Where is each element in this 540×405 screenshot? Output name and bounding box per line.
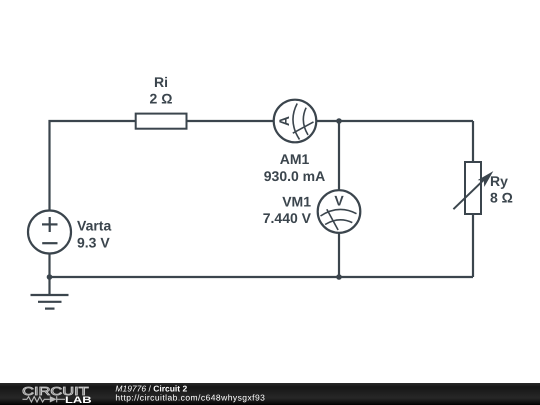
voltmeter VM1 [263, 190, 361, 233]
svg-text:Ry: Ry [490, 173, 508, 189]
CircuitLab logo [22, 386, 92, 405]
wire bottom rail [50, 276, 474, 278]
svg-text:930.0 mA: 930.0 mA [264, 168, 325, 184]
wire top rail: resistor Ri to ammeter AM1 [187, 120, 274, 122]
wire voltmeter branch: VM1 to bottom rail [338, 233, 340, 277]
wire voltage source bottom lead [48, 254, 50, 277]
wire ground stem [48, 277, 50, 295]
svg-text:A: A [276, 116, 292, 126]
svg-text:AM1: AM1 [280, 151, 310, 167]
wire top rail: left corner to resistor Ri [50, 121, 136, 210]
variable resistor Ry [453, 162, 513, 214]
wire right rail: Ry to bottom rail [472, 214, 474, 277]
resistor Ri [136, 74, 187, 129]
svg-text:V: V [334, 193, 344, 209]
wire right rail: corner down to Ry [472, 121, 474, 162]
svg-text:7.440 V: 7.440 V [263, 210, 312, 226]
svg-text:9.3 V: 9.3 V [77, 235, 110, 251]
svg-text:Varta: Varta [77, 218, 111, 234]
node C: left bottom junction [47, 274, 53, 280]
svg-text:Ri: Ri [154, 74, 168, 90]
svg-text:LAB: LAB [65, 395, 92, 405]
wire voltmeter branch: node to VM1 [338, 121, 340, 190]
svg-text:VM1: VM1 [282, 194, 311, 210]
wire top rail: ammeter AM1 to right corner [317, 120, 474, 122]
svg-text:8 Ω: 8 Ω [490, 190, 513, 206]
node B: bottom junction [336, 274, 342, 280]
node A: top junction [336, 118, 342, 124]
voltage source V1 (Varta) [28, 211, 111, 254]
footer text [115, 383, 265, 402]
ground [31, 295, 69, 309]
svg-text:2 Ω: 2 Ω [150, 91, 173, 107]
ammeter AM1 [264, 100, 325, 184]
footer bar [0, 383, 540, 405]
svg-text:http://circuitlab.com/c648whys: http://circuitlab.com/c648whysgxf93 [115, 392, 265, 402]
